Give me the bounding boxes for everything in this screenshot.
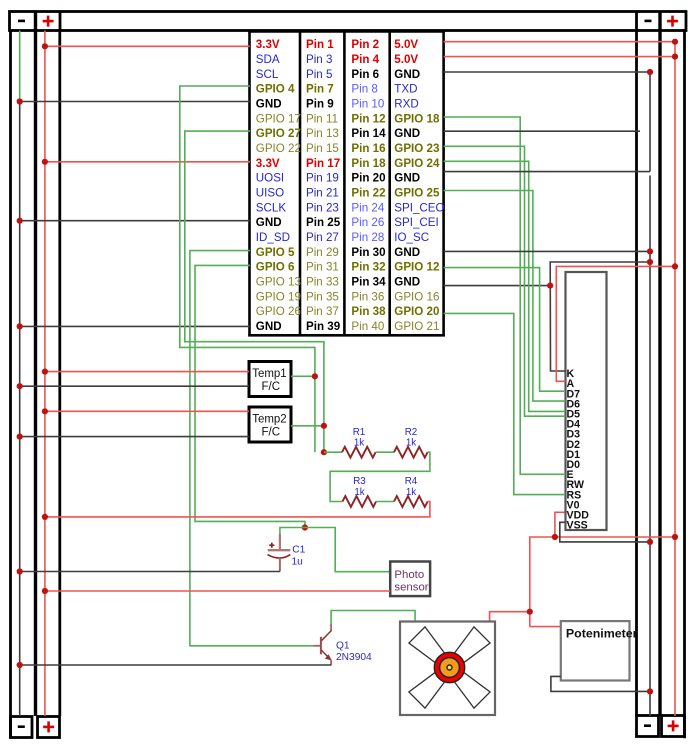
junction: Temp1 output on GPIO4 net [312, 373, 318, 379]
svg-text:GND: GND [256, 216, 282, 229]
wire: junction to C1 top [280, 528, 305, 535]
wire: Temp1 output [291, 375, 315, 377]
bottom right minus sign [644, 724, 651, 727]
svg-text:Temp1: Temp1 [252, 368, 287, 380]
junction: VDD branch on red net [552, 534, 558, 540]
junction: minus rail K wire [647, 259, 653, 265]
svg-text:SDA: SDA [256, 53, 280, 66]
svg-text:Pin 29: Pin 29 [306, 246, 339, 259]
top left minus label [18, 20, 25, 23]
wire: GPIO4 net (table to Temp1 output bus) [180, 86, 315, 452]
top bar divider left + end [59, 12, 62, 31]
svg-text:Pin 28: Pin 28 [351, 231, 384, 244]
photo sensor box [390, 562, 430, 597]
svg-text:GPIO 6: GPIO 6 [256, 261, 295, 274]
wire: GND row17 to K net [444, 285, 551, 287]
bottom left plus box [38, 717, 60, 738]
svg-text:R4: R4 [405, 476, 418, 487]
svg-text:Pin 22: Pin 22 [351, 187, 385, 200]
wire: LCD VSS to right minus rail [560, 522, 650, 542]
svg-text:Pin 31: Pin 31 [306, 261, 339, 274]
wire: R2 to R3 (green S-bend) [330, 452, 430, 501]
svg-text:GPIO 26: GPIO 26 [256, 305, 301, 318]
wire: GND row3 to right minus rail [444, 71, 650, 73]
LCD pin labels [567, 368, 590, 531]
wire: GND row13 to left minus rail [20, 220, 250, 222]
wire: GPIO12 to LCD D7 [444, 268, 566, 392]
svg-text:GPIO 21: GPIO 21 [394, 320, 439, 333]
junction: plus rail row1 [672, 39, 678, 45]
svg-text:VSS: VSS [567, 520, 588, 532]
wire: plus rail to Temp2 [45, 410, 249, 412]
fan motor M1 box [400, 622, 495, 716]
svg-text:5.0V: 5.0V [394, 53, 418, 66]
svg-text:SCLK: SCLK [256, 201, 287, 214]
wire: GND row20 to left minus rail [20, 325, 250, 327]
svg-text:Pin 23: Pin 23 [306, 201, 339, 214]
svg-text:Pin 5: Pin 5 [306, 68, 332, 81]
junction: plus rail row9 [42, 159, 48, 165]
GPIO header table column borders [248, 30, 444, 336]
junction: GPIO6/C1/photosensor node [302, 524, 308, 530]
wire: plus rail to photo sensor [45, 590, 390, 592]
svg-text:Pin 3: Pin 3 [306, 53, 332, 66]
wire: plus rail to Temp1 [45, 371, 249, 373]
potentiometer box [561, 621, 630, 680]
svg-text:Pin 9: Pin 9 [306, 98, 334, 111]
wire: left minus rail bus (gray) [19, 102, 21, 717]
junction: plus rail Temp1 [42, 369, 48, 375]
potentiometer label [566, 627, 638, 641]
wire: +3.3V row9 to left plus rail [45, 161, 250, 163]
right plus rail right edge [683, 29, 686, 738]
junction: minus rail Q1 emitter [17, 662, 23, 668]
svg-text:TXD: TXD [394, 83, 417, 96]
wire: GND row10 to right minus rail [444, 171, 650, 173]
svg-text:Pin 26: Pin 26 [351, 216, 384, 229]
svg-text:Temp2: Temp2 [252, 414, 287, 426]
wire: 5.0V row1 to right plus rail [444, 41, 675, 43]
svg-text:Pin 40: Pin 40 [351, 320, 384, 333]
svg-text:2N3904: 2N3904 [336, 652, 372, 663]
svg-text:GPIO 4: GPIO 4 [256, 83, 295, 96]
wire: Q1 emitter to left minus rail [20, 664, 331, 666]
wire: red branch to potentiometer [530, 626, 561, 628]
svg-text:GPIO 19: GPIO 19 [256, 290, 301, 303]
svg-text:R3: R3 [353, 476, 366, 487]
svg-text:GPIO 24: GPIO 24 [394, 157, 440, 170]
junction: right plus rail red net [672, 534, 678, 540]
junction: plus rail R4 wire [42, 514, 48, 520]
svg-text:SPI_CEI: SPI_CEI [394, 216, 438, 229]
svg-text:Pin 13: Pin 13 [306, 127, 339, 140]
svg-text:Pin 12: Pin 12 [351, 112, 385, 125]
svg-text:3.3V: 3.3V [256, 157, 280, 170]
wire: 5.0V row2 to right plus rail [444, 56, 675, 58]
svg-text:F/C: F/C [262, 381, 281, 393]
wire: GPIO6 net (table to C1/photosensor junction) [195, 265, 305, 527]
svg-text:UOSI: UOSI [256, 172, 284, 185]
svg-text:GPIO 18: GPIO 18 [394, 112, 440, 125]
resistor R2 (1k) zigzag [394, 447, 428, 458]
svg-text:SPI_CEO: SPI_CEO [394, 201, 444, 214]
junction: minus rail VSS wire [647, 539, 653, 545]
GPIO header table pin labels [256, 38, 445, 333]
svg-text:GND: GND [394, 68, 420, 81]
svg-text:Pin 32: Pin 32 [351, 261, 385, 274]
svg-text:Pin 27: Pin 27 [306, 231, 339, 244]
wire: junction to photo sensor [305, 528, 390, 572]
bottom right minus box [637, 716, 659, 737]
right rail shared edge [658, 29, 661, 716]
svg-text:Pin 30: Pin 30 [351, 246, 385, 259]
svg-text:UISO: UISO [256, 187, 284, 200]
svg-text:GND: GND [394, 276, 420, 289]
svg-text:5.0V: 5.0V [394, 38, 418, 51]
resistor R2 label [405, 427, 418, 449]
top left plus label [43, 16, 54, 27]
svg-text:Pin 37: Pin 37 [306, 305, 339, 318]
wire: LCD K to right minus rail (gray) [550, 262, 650, 371]
temp sensor Temp2 label [252, 414, 287, 439]
svg-text:1k: 1k [406, 438, 416, 449]
resistor R4 (1k) zigzag [394, 496, 428, 507]
svg-text:GPIO 5: GPIO 5 [256, 246, 295, 259]
svg-text:GND: GND [394, 172, 420, 185]
left minus rail left edge [9, 29, 12, 738]
svg-text:GND: GND [256, 320, 282, 333]
svg-text:GPIO 20: GPIO 20 [394, 305, 439, 318]
svg-text:F/C: F/C [262, 427, 281, 439]
left plus rail right edge [58, 29, 61, 716]
LCD display box [566, 272, 607, 530]
svg-text:Pin 20: Pin 20 [351, 172, 385, 185]
junction: plus rail row2 [672, 54, 678, 60]
wire: R1-R2 link [376, 451, 394, 453]
svg-text:Pin 33: Pin 33 [306, 276, 339, 289]
right minus rail left edge [635, 29, 638, 716]
wire: left plus rail bus (red) [44, 31, 46, 717]
svg-text:Pin 21: Pin 21 [306, 187, 339, 200]
svg-text:Pin 2: Pin 2 [351, 38, 379, 51]
fan blades [454, 672, 490, 708]
resistor R3 label [353, 476, 366, 498]
svg-text:Pin 15: Pin 15 [306, 142, 339, 155]
junction: minus rail Temp2 [17, 434, 23, 440]
junction: plus rail Temp2 [42, 408, 48, 414]
svg-text:Pin 6: Pin 6 [351, 68, 379, 81]
svg-text:SCL: SCL [256, 68, 279, 81]
junction: minus rail GND row13 [17, 218, 23, 224]
wire: R3-R4 link [376, 501, 394, 503]
svg-text:GPIO 25: GPIO 25 [394, 187, 440, 200]
svg-text:Pin 10: Pin 10 [351, 98, 384, 111]
top bar divider left -/+ [34, 12, 37, 31]
svg-text:Pin 14: Pin 14 [351, 127, 386, 140]
svg-text:GPIO 16: GPIO 16 [394, 290, 439, 303]
photo sensor label [394, 569, 428, 593]
bottom left plus sign [43, 721, 54, 732]
junction: minus rail C1 [17, 568, 23, 574]
svg-text:IO_SC: IO_SC [394, 231, 429, 244]
svg-text:RXD: RXD [394, 98, 418, 111]
junction: GPIO27 net joins resistor chain [321, 449, 327, 455]
wire: right minus rail bus (gray) [649, 176, 651, 717]
wire: right minus rail bus top segment [649, 72, 651, 172]
svg-text:GND: GND [394, 246, 420, 259]
wire: R4 to left plus rail (red) [45, 502, 430, 517]
wire: GPIO23 to LCD D4 [444, 146, 566, 416]
resistor R1 (1k) zigzag [342, 447, 376, 458]
wire: potentiometer to right minus rail [551, 676, 650, 691]
wire: Temp2 output [291, 425, 324, 427]
svg-text:1k: 1k [406, 487, 416, 498]
junction: minus rail potentiometer [647, 688, 653, 694]
junction: fan red tap [527, 609, 533, 615]
temp sensor Temp1 box [249, 362, 291, 397]
svg-text:Pin 34: Pin 34 [351, 276, 386, 289]
svg-text:Pin 18: Pin 18 [351, 157, 386, 170]
wire: Q1 collector to fan (green) [331, 611, 415, 625]
svg-text:Photo: Photo [394, 569, 424, 581]
svg-text:sensor: sensor [394, 582, 428, 594]
junction: minus rail GND row20 [17, 323, 23, 329]
wire: right plus rail bus (red) [674, 42, 676, 716]
transistor Q1 2N3904 symbol [313, 624, 331, 665]
resistor R4 label [405, 476, 418, 498]
svg-text:GPIO 13: GPIO 13 [256, 276, 301, 289]
junction: minus rail Temp1 [17, 383, 23, 389]
svg-text:Pin 39: Pin 39 [306, 320, 341, 333]
wire: LCD A to right plus rail (red) [556, 266, 675, 381]
junction: K net GND row17 [547, 283, 553, 289]
wire: VDD branch (red) [555, 512, 566, 537]
svg-text:Pin 36: Pin 36 [351, 290, 384, 303]
svg-text:Pin 7: Pin 7 [306, 83, 334, 96]
resistor R1 label [353, 427, 366, 449]
svg-text:GPIO 12: GPIO 12 [394, 261, 439, 274]
svg-text:ID_SD: ID_SD [256, 231, 290, 244]
svg-text:Potenimeter: Potenimeter [566, 627, 638, 641]
capacitor C1 polarized symbol [268, 534, 291, 572]
junction: minus rail GND row15 [647, 248, 653, 254]
wire: GPIO24 to LCD D5 [444, 161, 566, 411]
svg-text:Pin 16: Pin 16 [351, 142, 386, 155]
svg-text:Pin 11: Pin 11 [306, 112, 338, 125]
temp sensor Temp1 label [252, 368, 287, 393]
svg-text:Pin 38: Pin 38 [351, 305, 386, 318]
junction: plus rail row1 [42, 43, 48, 49]
wire: GPIO20 to LCD RS [444, 313, 566, 494]
svg-text:3.3V: 3.3V [256, 38, 280, 51]
bottom right plus sign [668, 720, 679, 731]
wire: GND row15 to right minus rail [444, 250, 650, 252]
svg-text:GPIO 23: GPIO 23 [394, 142, 440, 155]
svg-text:1u: 1u [292, 557, 303, 568]
wire: plus net to fan (red) [490, 612, 530, 622]
wire: GPIO25 to LCD D6 [444, 191, 566, 402]
svg-text:GPIO 17: GPIO 17 [256, 112, 301, 125]
resistor R3 (1k) zigzag [343, 496, 377, 507]
top bar divider right - start [635, 12, 638, 31]
wire: GPIO5 net (table to Q1 base) [190, 251, 314, 646]
bottom left minus sign [18, 725, 25, 728]
svg-text:Pin 24: Pin 24 [351, 201, 384, 214]
svg-text:Pin 8: Pin 8 [351, 83, 377, 96]
breadboard top power bus bar [10, 12, 687, 31]
wire: GPIO27 net (table to Temp2 output bus) [185, 131, 324, 452]
svg-text:Pin 25: Pin 25 [306, 216, 341, 229]
svg-text:R2: R2 [405, 427, 418, 438]
svg-text:Pin 1: Pin 1 [306, 38, 334, 51]
temp sensor Temp2 box [249, 407, 291, 442]
svg-text:Q1: Q1 [336, 640, 350, 651]
wire: GND row5 to left minus rail [20, 101, 250, 103]
svg-text:C1: C1 [292, 545, 305, 556]
junction: Temp2 output on GPIO27 net [321, 423, 327, 429]
svg-text:GND: GND [256, 98, 282, 111]
junction: plus rail photo sensor [42, 588, 48, 594]
capacitor C1 label [292, 545, 306, 568]
junction: plus rail A wire [672, 263, 678, 269]
bottom left minus box [11, 717, 33, 738]
svg-text:1k: 1k [354, 487, 364, 498]
wire: GPIO18 to LCD E [444, 117, 566, 474]
svg-text:Pin 4: Pin 4 [351, 53, 379, 66]
wire: left minus rail green segment (top) [19, 31, 21, 102]
transistor Q1 label [336, 640, 372, 663]
top right plus label [667, 16, 678, 27]
svg-text:Pin 19: Pin 19 [306, 172, 339, 185]
junction: minus rail GND row3 [647, 69, 653, 75]
top right minus label [645, 20, 652, 23]
wire: minus rail to Temp2 [20, 436, 249, 438]
bottom right plus box [662, 716, 685, 737]
svg-text:GND: GND [394, 127, 420, 140]
top bar divider right -/+ [658, 12, 661, 31]
svg-text:Pin 17: Pin 17 [306, 157, 340, 170]
wire: red net fan/potentiometer/VDD/plus rail [530, 537, 675, 627]
svg-text:1k: 1k [354, 438, 364, 449]
svg-text:Pin 35: Pin 35 [306, 290, 339, 303]
left rail shared edge [34, 29, 37, 716]
junction: minus rail GND row5 [17, 98, 23, 104]
wire: GND row7 stub to right minus rail [444, 130, 640, 132]
wire: R1 left lead [324, 451, 342, 453]
wire: minus rail to Temp1 [20, 385, 249, 387]
wire: C1 bottom to left minus rail [20, 571, 280, 573]
fan hub [434, 652, 464, 682]
svg-text:GPIO 22: GPIO 22 [256, 142, 301, 155]
wire: +3.3V row1 to left plus rail [45, 45, 250, 47]
svg-text:R1: R1 [353, 427, 366, 438]
svg-text:GPIO 27: GPIO 27 [256, 127, 301, 140]
